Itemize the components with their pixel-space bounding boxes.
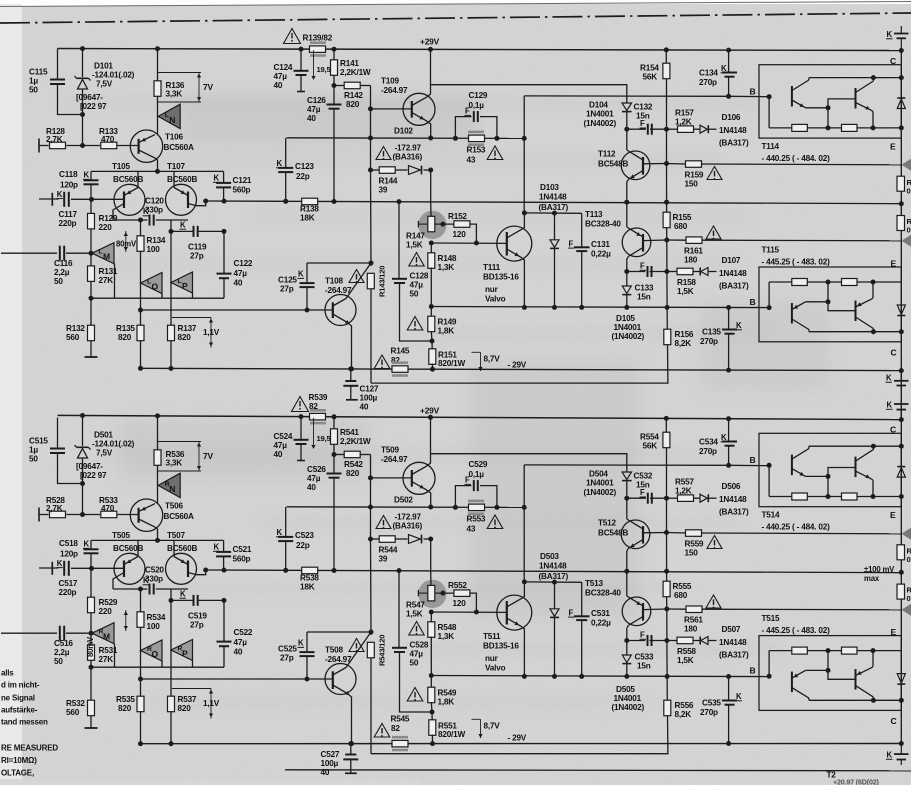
- label R531 27K: [99, 646, 118, 664]
- svg-text:T111: T111: [483, 263, 501, 272]
- svg-text:C127: C127: [360, 385, 379, 394]
- svg-text:100µ: 100µ: [360, 394, 378, 403]
- svg-text:C125: C125: [278, 276, 297, 285]
- resistor R557 1,2K: [678, 495, 694, 502]
- warning triangle R148: [409, 253, 424, 267]
- svg-text:BC548B: BC548B: [598, 529, 628, 538]
- capacitor C115 1u/50: [50, 80, 65, 85]
- svg-text:R132: R132: [66, 324, 85, 333]
- warning triangle R553: [487, 515, 503, 529]
- label T505: [112, 531, 131, 540]
- node D104-C132: [624, 127, 629, 132]
- gray adjust disc R547: [418, 580, 446, 608]
- wire +29V rail: [58, 415, 902, 419]
- svg-text:Valvo: Valvo: [485, 295, 506, 304]
- resistor R152 120: [454, 221, 470, 228]
- svg-text:P: P: [182, 281, 188, 291]
- svg-text:220: 220: [99, 607, 113, 616]
- svg-text:40: 40: [274, 81, 283, 90]
- svg-text:1,1V: 1,1V: [203, 328, 220, 337]
- node rail-R136: [155, 46, 160, 51]
- svg-text:2,2µ: 2,2µ: [54, 268, 70, 277]
- svg-text:(BA317): (BA317): [719, 651, 749, 660]
- label -172.97 BA316: [393, 144, 423, 162]
- label R554 56K: [640, 433, 659, 451]
- capacitor C518 120p: [84, 540, 99, 568]
- svg-text:220p: 220p: [59, 219, 77, 228]
- svg-text:R137: R137: [178, 324, 197, 333]
- label T511 BD135-16 nur Valvo: [483, 632, 519, 673]
- wire R161 row: [667, 608, 902, 611]
- label BC560A: [164, 512, 194, 521]
- svg-text:1N4001: 1N4001: [586, 479, 614, 488]
- node T108coll-R143: [369, 630, 374, 635]
- svg-text:100µ: 100µ: [321, 759, 339, 768]
- svg-text:40: 40: [307, 114, 316, 123]
- node T114 Q1e: [826, 105, 831, 110]
- diode D504: [622, 472, 632, 498]
- node Bwire-C134: [726, 94, 731, 99]
- label R528 2,7K: [46, 496, 65, 513]
- frame dash-dot line: [0, 13, 911, 23]
- label F of C129: [465, 476, 472, 485]
- svg-text:820/1W: 820/1W: [438, 730, 465, 739]
- wire R128-R133: [67, 145, 101, 147]
- svg-text:150: 150: [685, 549, 699, 558]
- capacitor C127 100u/40: [343, 369, 358, 400]
- node C127-rail: [348, 366, 353, 371]
- label C121 560p: [233, 176, 252, 195]
- svg-text:(1N4002): (1N4002): [612, 703, 645, 712]
- svg-text:F: F: [640, 488, 645, 497]
- resistor R136 3,3K: [154, 81, 161, 97]
- diode T114 clamp: [897, 98, 905, 109]
- node T114 bottom-rail: [899, 494, 904, 499]
- svg-text:R559: R559: [685, 540, 704, 549]
- wire R134 to base line: [140, 283, 142, 310]
- svg-text:D105: D105: [616, 314, 635, 323]
- resistor R558 1,5K: [677, 637, 693, 644]
- svg-text:40: 40: [321, 768, 330, 777]
- wire C132 row: [627, 497, 667, 499]
- resistor R556 8,2K: [371, 676, 671, 753]
- svg-text:F: F: [640, 262, 645, 271]
- wire x666 column c: [666, 609, 668, 641]
- svg-text:L: L: [178, 278, 182, 285]
- warning triangle R149: [407, 317, 423, 331]
- resistor T114-R1: [792, 124, 808, 131]
- node C121-midline: [222, 199, 227, 204]
- label E bottom module: [891, 259, 897, 269]
- wire C116 to M: [66, 632, 92, 634]
- label C126 47u 40: [307, 96, 326, 123]
- svg-text:15n: 15n: [637, 662, 651, 671]
- node D101-baserow: [80, 512, 85, 517]
- svg-text:R531: R531: [99, 646, 118, 655]
- node R141-R142: [332, 452, 337, 457]
- svg-text:R153: R153: [467, 146, 486, 155]
- node rail-right-col: [899, 741, 904, 746]
- page edge line: [0, 2, 911, 7]
- svg-text:R129: R129: [99, 214, 118, 223]
- transistor T113 BC328-40: [622, 227, 651, 272]
- node R143-line137: [368, 136, 373, 141]
- hybrid module T515 box: [759, 636, 901, 711]
- label C518 120p: [59, 539, 78, 559]
- svg-text:1N4001: 1N4001: [586, 110, 614, 119]
- node T114 Q1e-bottom: [826, 494, 831, 499]
- svg-text:C518: C518: [59, 539, 78, 548]
- node T115 Q1e: [826, 299, 831, 304]
- wire x666 column c: [666, 240, 668, 272]
- node T114 topwire-rail: [899, 444, 904, 449]
- capacitor C129 0,1u loop: [455, 111, 497, 138]
- label +-100mV max: [864, 565, 895, 583]
- node line137-loopL: [453, 136, 458, 141]
- label C116 2,2u 50: [54, 259, 73, 286]
- resistor right-col lower: [897, 584, 905, 599]
- label R544 39: [379, 546, 398, 564]
- label K of C119: [180, 220, 187, 229]
- resistor R529 220: [88, 568, 95, 633]
- label C532 15n: [634, 472, 653, 490]
- svg-text:56K: 56K: [643, 442, 658, 451]
- diode D502 BA316: [409, 535, 422, 544]
- node D103-Bline: [552, 674, 557, 679]
- resistor R144 39: [379, 167, 395, 174]
- wire base line to T108: [141, 678, 333, 680]
- svg-text:R159: R159: [685, 171, 704, 180]
- svg-text:47µ: 47µ: [274, 441, 288, 450]
- svg-text:R548: R548: [438, 623, 457, 632]
- resistor R135 820: [137, 310, 144, 368]
- wire T113 base: [643, 239, 667, 242]
- label K of C117: [56, 559, 63, 568]
- svg-text:D107: D107: [722, 256, 741, 265]
- svg-text:0,: 0,: [907, 187, 911, 196]
- gray adjust disc R147: [418, 211, 446, 239]
- capacitor C519 27p: [194, 595, 198, 606]
- svg-text:820: 820: [346, 469, 360, 478]
- node C527-rail: [348, 741, 353, 746]
- label R539/82: [309, 393, 328, 411]
- node zener-C115: [80, 112, 85, 117]
- resistor R538 18K: [302, 567, 318, 574]
- svg-text:R535: R535: [116, 695, 135, 704]
- svg-text:C519: C519: [188, 612, 207, 621]
- warning triangle near R561: [706, 595, 721, 608]
- node R143-line137: [368, 505, 373, 510]
- label K of C118: [83, 171, 90, 180]
- svg-text:0,: 0,: [907, 555, 911, 564]
- label E top module: [890, 142, 896, 152]
- capacitor K mid1: [894, 371, 909, 391]
- amplifier point LO: [141, 273, 163, 294]
- svg-text:R157: R157: [675, 109, 694, 118]
- node T115 Q2e-top: [871, 648, 876, 653]
- resistor R143/120: [367, 263, 374, 383]
- label +29V: [420, 37, 440, 47]
- svg-text:C116: C116: [54, 259, 73, 268]
- svg-text:R155: R155: [673, 213, 692, 222]
- svg-text:0,1µ: 0,1µ: [469, 101, 485, 110]
- label R143/120 vertical: [378, 266, 387, 297]
- svg-text:[09647-: [09647-: [76, 93, 103, 102]
- label K mid1: [886, 374, 893, 383]
- label D103 1N4148 BA317: [539, 183, 569, 212]
- node rail-C124: [299, 414, 304, 419]
- svg-text:3,3K: 3,3K: [166, 90, 183, 99]
- svg-text:1,8K: 1,8K: [438, 327, 455, 336]
- svg-text:18K: 18K: [300, 214, 315, 223]
- label T108 -264.97: [325, 277, 352, 296]
- transistor T107 BC560B: [166, 171, 206, 215]
- wire R143 column mid: [370, 170, 373, 263]
- label bottom part number: [833, 778, 880, 785]
- label R159 150: [685, 171, 704, 189]
- wire C133 row: [627, 271, 667, 273]
- svg-text:T106: T106: [165, 133, 184, 142]
- svg-text:8,2K: 8,2K: [675, 339, 692, 348]
- svg-text:82: 82: [391, 724, 400, 733]
- svg-text:C120: C120: [145, 197, 164, 206]
- svg-text:C533: C533: [635, 653, 654, 662]
- wire T115 base-emitter left: [768, 651, 770, 677]
- svg-text:L: L: [147, 279, 151, 286]
- label C519 27p: [188, 612, 207, 630]
- svg-text:80mV: 80mV: [116, 240, 137, 249]
- svg-text:1,5K: 1,5K: [677, 287, 694, 296]
- label F of C132: [640, 119, 647, 128]
- resistor R132 560: [88, 298, 95, 357]
- resistor R548 1,3K: [428, 612, 435, 676]
- svg-text:C128: C128: [410, 272, 429, 281]
- warning triangle near R559: [707, 536, 722, 549]
- label C516 2,2u 50: [54, 639, 73, 666]
- svg-text:RI=10MΩ): RI=10MΩ): [1, 756, 37, 765]
- node C118-input2: [89, 566, 94, 571]
- label 09647-022 97: [76, 93, 107, 111]
- resistor R157 1,2K: [678, 126, 694, 132]
- diode D102 BA316: [409, 166, 422, 175]
- svg-text:50: 50: [54, 277, 63, 286]
- label R141 2,2K/1W: [340, 59, 371, 77]
- svg-text:K: K: [57, 190, 63, 199]
- wire B line upper: [524, 95, 769, 98]
- label K of C134: [721, 433, 728, 442]
- label R532 560: [66, 699, 85, 717]
- node Bline-C135: [726, 305, 731, 310]
- node T111e-Bline: [522, 305, 527, 310]
- warning triangle R539: [292, 397, 309, 412]
- transistor T114-Q1: [792, 78, 828, 128]
- resistor R553 43: [468, 501, 485, 514]
- svg-text:T113: T113: [585, 210, 603, 219]
- label F of C131: [568, 608, 575, 617]
- svg-text:220: 220: [99, 223, 113, 232]
- svg-text:1N4001: 1N4001: [614, 694, 642, 703]
- node T115 Q1e: [826, 668, 831, 673]
- wire C125 top to R143: [307, 262, 371, 264]
- hybrid module T114 box: [759, 65, 901, 138]
- svg-text:BD135-16: BD135-16: [483, 642, 519, 651]
- terminal bar R132: [85, 727, 98, 729]
- node C125-baseline: [305, 308, 310, 313]
- svg-text:T105: T105: [112, 162, 131, 171]
- label R549 1,8K: [438, 689, 457, 707]
- label right-col upper cut: [907, 547, 911, 565]
- svg-text:-264.97: -264.97: [325, 655, 352, 664]
- svg-text:- 29V: - 29V: [508, 734, 527, 743]
- wire R142 row: [334, 454, 371, 456]
- label B top: [750, 455, 756, 465]
- wire R134 to base line: [140, 651, 142, 680]
- svg-text:BC560A: BC560A: [164, 143, 194, 152]
- node Bline-C135: [726, 674, 731, 679]
- svg-text:aufstärke-: aufstärke-: [1, 706, 38, 715]
- wire triangle-base bus: [91, 297, 224, 299]
- label D102: [394, 127, 413, 136]
- capacitor C116 2,2u: [60, 246, 64, 261]
- resistor R554 56K: [663, 418, 670, 498]
- node T106-collector: [155, 169, 160, 174]
- wire R142 row: [334, 85, 371, 87]
- resistor R147 1,5K: [418, 216, 434, 232]
- resistor T114-R1: [792, 493, 808, 500]
- node line137-x524: [522, 136, 527, 141]
- node R137-rail: [169, 366, 174, 371]
- label K bottom: [886, 751, 893, 760]
- svg-text:D104: D104: [589, 101, 608, 110]
- wire T114 base-emitter left: [768, 97, 770, 128]
- diode T114 clamp: [897, 467, 905, 478]
- resistor R161 180: [686, 237, 702, 244]
- label C135 270p: [700, 328, 721, 347]
- wire T109 base: [371, 477, 412, 479]
- svg-text:R145: R145: [391, 347, 410, 356]
- warning triangle D502: [376, 516, 391, 529]
- svg-text:BC560B: BC560B: [113, 544, 143, 553]
- svg-text:R557: R557: [675, 478, 694, 487]
- svg-text:C122: C122: [234, 259, 253, 268]
- label 1,1V: [203, 328, 220, 337]
- resistor T114-R2: [842, 493, 858, 500]
- svg-text:L: L: [165, 112, 169, 119]
- label F of C133: [640, 262, 647, 271]
- wire M base down: [114, 644, 116, 668]
- label R535 820: [116, 695, 135, 713]
- svg-text:T107: T107: [167, 162, 186, 171]
- wire x524 column: [523, 96, 525, 213]
- svg-text:(BA317): (BA317): [719, 139, 749, 148]
- node jog-T107: [203, 568, 208, 573]
- svg-text:150: 150: [685, 180, 699, 189]
- label K of C120: [143, 576, 150, 585]
- capacitor C529 0,1u loop: [455, 480, 497, 507]
- resistor T115-R1: [792, 647, 808, 654]
- node D101-baserow: [80, 143, 85, 148]
- wire base row with C520: [113, 588, 188, 590]
- svg-text:27K: 27K: [99, 655, 114, 664]
- wire R133 to T106 base: [118, 514, 139, 516]
- transistor T114-Q2: [856, 446, 874, 496]
- label R529 220: [99, 598, 118, 616]
- label T114: [762, 142, 780, 151]
- node R143-D102wire: [368, 168, 373, 173]
- svg-text:B: B: [750, 666, 756, 676]
- svg-text:BD135-16: BD135-16: [483, 273, 519, 282]
- svg-text:T508: T508: [325, 646, 344, 655]
- svg-text:43: 43: [467, 525, 476, 534]
- wire C115 to D-column: [58, 84, 83, 115]
- label D504 1N4001: [584, 470, 617, 498]
- label K of C134: [721, 64, 728, 73]
- label C522 47u 40: [234, 628, 253, 657]
- svg-text:R135: R135: [116, 324, 135, 333]
- label D101 data: [92, 62, 135, 89]
- wire T112 base: [643, 163, 667, 165]
- svg-text:R547: R547: [406, 601, 425, 610]
- resistor R151 820/1W: [429, 341, 436, 369]
- svg-text:C534: C534: [699, 438, 718, 447]
- node R137-rail: [169, 741, 174, 746]
- svg-text:C524: C524: [274, 432, 293, 441]
- transistor T512 BC548B: [621, 519, 650, 571]
- label K of C120: [143, 207, 150, 216]
- svg-text:nur: nur: [485, 285, 499, 294]
- node rail-C134: [726, 416, 731, 421]
- resistor right-col upper: [897, 545, 905, 560]
- wire R143 column mid: [370, 539, 373, 632]
- label R536 3,3K: [166, 450, 185, 468]
- node input3-M: [89, 631, 94, 636]
- label R158 1,5K: [677, 278, 696, 296]
- bracket 7V: [158, 442, 201, 472]
- label R144 39: [379, 177, 398, 195]
- node x666-T113base: [664, 238, 669, 243]
- resistor R138 18K: [302, 198, 318, 205]
- label T112 BC548B: [598, 150, 628, 169]
- capacitor C119 27p: [194, 226, 198, 237]
- label R139/82: [303, 34, 333, 43]
- label D104 1N4001: [584, 101, 617, 129]
- svg-text:C135: C135: [702, 328, 721, 337]
- resistor R545 82 on rail: [392, 737, 408, 750]
- wire x666 column d: [666, 272, 668, 308]
- label K of C125: [298, 270, 305, 279]
- svg-text:D505: D505: [616, 685, 635, 694]
- wire T109e to R147: [430, 539, 432, 586]
- svg-text:BC560A: BC560A: [164, 512, 194, 521]
- svg-text:C527: C527: [321, 750, 340, 759]
- hybrid module T115 box: [759, 267, 901, 342]
- node C126-midline: [332, 199, 337, 204]
- capacitor C533 15n: [648, 635, 652, 646]
- transistor T105 BC560B: [113, 171, 145, 220]
- label -172.97 BA316: [393, 513, 423, 531]
- connector stub input1: [38, 508, 40, 522]
- wire x524 column: [523, 465, 525, 582]
- label -29V: [508, 734, 527, 743]
- svg-text:T115: T115: [762, 246, 780, 255]
- label 8,7V: [472, 719, 501, 738]
- node rail-D101: [80, 46, 85, 51]
- resistor R537 820: [168, 589, 175, 744]
- svg-text:- 440.25 ( - 484. 02): - 440.25 ( - 484. 02): [762, 523, 831, 532]
- node x666-Bline: [665, 305, 670, 310]
- capacitor C522 47u: [217, 600, 232, 667]
- svg-text:C522: C522: [234, 628, 253, 637]
